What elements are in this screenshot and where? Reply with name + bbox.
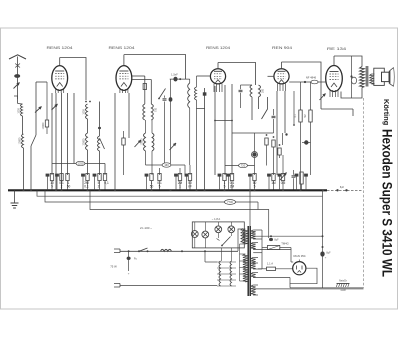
wire V4 to V5 coupling y82: [289, 81, 326, 83]
wire x291 col: [290, 248, 292, 250]
coupling oval on y82: [311, 80, 318, 84]
wire det mid links: [254, 133, 256, 152]
svg-text:8µF: 8µF: [326, 252, 331, 255]
return line y196: [37, 190, 323, 196]
capacitor blobs row stage3: [219, 177, 221, 191]
wire L2 down to bus: [23, 148, 25, 190]
wire L1 to L2: [22, 116, 24, 134]
wire osc column a: [87, 150, 89, 175]
wire V5 anode riser: [333, 56, 335, 66]
inductor L1 antenna coil: [21, 104, 23, 116]
svg-text:4198: 4198: [340, 289, 346, 292]
wire V4 pin col3: [293, 91, 295, 125]
svg-text:10000: 10000: [141, 138, 144, 145]
mains plug upper prong: [114, 249, 120, 253]
svg-text:5: 5: [254, 184, 256, 188]
capacitor 8uF B+ blob: [320, 251, 324, 256]
720 coupling oval: [239, 163, 248, 167]
AVC network resistor Ra: [265, 138, 268, 145]
wire speaker links: [372, 73, 375, 75]
wire x262 col: [261, 230, 263, 269]
wire osc col c: [104, 164, 106, 176]
contact tick antenna: [14, 96, 18, 99]
dial lamp La3: [215, 226, 222, 233]
secondary lead y288 bottom: [253, 288, 363, 290]
wire V3 grid column: [204, 88, 206, 190]
wire V3 anode top riser: [217, 63, 219, 69]
wire osc top riser: [99, 102, 101, 126]
electrolytic blob det: [252, 152, 258, 158]
wire V4 pin col2: [284, 91, 286, 133]
svg-text:2×-100 ~: 2×-100 ~: [140, 226, 152, 230]
wire top link V2 to coupling node: [124, 55, 186, 80]
inductor L7 stage2: [152, 133, 154, 151]
resistor row stage3 R13: [223, 174, 226, 181]
wire V3 left grid link: [197, 75, 211, 77]
wire speaker feed col: [351, 56, 353, 98]
voltage selector winding left: [219, 261, 221, 286]
mains switch: [139, 248, 148, 251]
wire C7 risers: [240, 85, 242, 89]
transformer secondary winding 3: [251, 258, 256, 270]
wire IF2 tops link: [241, 84, 253, 86]
wire y236 node dot: [270, 235, 272, 237]
wire top link V2 riser: [123, 55, 125, 66]
return line y202: [45, 190, 258, 202]
transformer secondary winding 5: [251, 285, 256, 295]
svg-text:5: 5: [224, 184, 226, 188]
AVC network resistor Rc: [278, 148, 281, 155]
resistor R8 stage2: [122, 138, 125, 145]
wire res leads: [258, 268, 267, 270]
resistor row stage3 R16: [272, 174, 275, 181]
wire x322 B+ column: [322, 190, 324, 287]
svg-text:1,1 A: 1,1 A: [267, 262, 273, 266]
grid resistor R18 0,1M: [299, 110, 302, 122]
switch diagonal stage2: [159, 89, 166, 99]
resistor on IF riser: [143, 84, 146, 90]
mains plug lower prong: [114, 284, 120, 288]
waveband switch S1b: [100, 138, 105, 149]
svg-text:RENS 1204: RENS 1204: [206, 46, 230, 50]
trimmer arrow antenna: [14, 83, 20, 89]
svg-text:8µF: 8µF: [340, 186, 345, 189]
mains fuse cap blob: [128, 251, 130, 271]
wire R20 col: [301, 184, 303, 190]
selector rungs: [217, 261, 236, 263]
junction dot coupling: [179, 78, 181, 80]
wire osc column b: [99, 151, 101, 175]
oscillator link bar 1250: [52, 163, 105, 165]
antenna switch mark: [15, 64, 20, 68]
IF T1 secondary riser: [150, 80, 152, 105]
tube V1 pins: [55, 89, 57, 93]
junction dots L3 top: [85, 101, 87, 103]
wire V2 anode link right: [132, 75, 145, 77]
dial lamp box: [192, 222, 244, 248]
capacitor C8 det: [272, 115, 276, 117]
secondary lead y239: [253, 238, 262, 240]
resistor row stage1 R3: [60, 174, 63, 181]
wire L4 L5 risers: [87, 119, 89, 133]
wire lamp box drops to selector: [221, 248, 223, 261]
7746 oval on return: [225, 200, 236, 205]
tube V5 RE134: [326, 66, 343, 92]
wire coupling y79: [170, 78, 190, 80]
wire transformer bottom return: [341, 88, 362, 99]
waveband switch S1a: [31, 135, 36, 146]
resistor row stage2 R12: [188, 174, 191, 181]
transformer primary upper winding: [243, 229, 248, 244]
wire V4 grid link: [268, 75, 274, 77]
secondary lead y266: [253, 262, 258, 264]
secondary lead y243: [253, 242, 258, 244]
chassis bus (heavy): [8, 189, 327, 191]
svg-text:nF: nF: [188, 184, 192, 188]
ground symbol: [14, 190, 16, 203]
svg-text:1000: 1000: [83, 109, 86, 115]
speaker LS magnet: [382, 72, 390, 81]
wire V4 anode riser: [281, 62, 283, 69]
tube V4 pins: [277, 84, 279, 92]
wire V3 g3 column: [231, 84, 233, 175]
svg-text:5: 5: [159, 184, 161, 188]
svg-text:RE 134: RE 134: [327, 47, 346, 51]
volume pot arrow: [280, 173, 287, 181]
dial lamp La4 stubs: [230, 222, 232, 226]
svg-text:1,5nF: 1,5nF: [171, 73, 178, 77]
speaker LS cone flare: [390, 68, 394, 87]
capacitor dot C9: [285, 133, 287, 135]
wire C10 col: [293, 170, 295, 175]
dial lamp La2: [202, 231, 209, 238]
detector switch arrow: [262, 109, 268, 119]
wire top link V1 to mixer coil: [60, 58, 86, 101]
wire R1 stub: [46, 113, 48, 120]
mains transformer core: [247, 226, 249, 296]
tube V5 pins: [329, 90, 331, 97]
wire V1 grid column: [55, 93, 57, 190]
svg-text:160: 160: [164, 163, 169, 167]
bus junction dots: [23, 189, 25, 191]
junction dot speaker col: [350, 75, 352, 77]
wire V3 cathode bar: [215, 120, 232, 122]
IF transformer T1 secondary: [151, 104, 153, 120]
secondary lead y236: [253, 235, 322, 237]
link bar 160 stage2: [146, 164, 186, 166]
tube V1 RENS1204: [52, 66, 68, 91]
tube V3 RENS1204: [210, 69, 225, 84]
lamp box switch: [222, 237, 231, 246]
wire stage2 col down a: [145, 151, 147, 165]
capacitor C5 across T1: [163, 98, 167, 100]
wire V5 cathode arrow: [320, 94, 326, 101]
wire rectifier cathode riser: [298, 260, 300, 262]
wire top V1 anode riser: [59, 58, 61, 66]
svg-text:TM4G: TM4G: [281, 242, 288, 246]
secondary lead y258: [253, 257, 258, 259]
wire top link V3 to IF2: [218, 63, 256, 86]
svg-text:75 W: 75 W: [110, 265, 117, 269]
svg-text:+: +: [128, 272, 130, 276]
wire x290 drop: [289, 284, 291, 288]
speaker LS cone bar: [389, 71, 391, 84]
160 coupling oval: [162, 163, 171, 167]
svg-text:7746: 7746: [227, 200, 233, 204]
svg-text:2M: 2M: [230, 184, 235, 188]
wire C5 column: [164, 96, 166, 98]
svg-text:REN 904: REN 904: [272, 46, 292, 50]
svg-text:2: 2: [61, 184, 63, 188]
wire R18 col: [300, 82, 302, 110]
svg-text:NF 4846: NF 4846: [306, 76, 317, 80]
wire x47 drop: [46, 82, 48, 113]
IF transformer T1 primary: [143, 104, 145, 120]
secondary lead y272: [253, 272, 258, 274]
wire det link bar: [251, 97, 253, 120]
svg-text:Hexoden Super S 3410 WL: Hexoden Super S 3410 WL: [379, 129, 394, 277]
svg-text:RENS 1204: RENS 1204: [109, 46, 135, 50]
capacitor blobs row stage1: [47, 177, 49, 191]
resistor row stage1 R2: [50, 174, 53, 181]
wire link antenna box top: [36, 81, 47, 83]
capacitor blob x170: [169, 97, 173, 101]
wire row stubs stage1: [51, 181, 53, 190]
bus end components: [336, 189, 338, 191]
wire switch column: [35, 82, 37, 135]
grid resistor R19 5M: [309, 110, 312, 122]
svg-text:10000: 10000: [19, 137, 22, 144]
resistor row stage1 R6: [98, 174, 101, 181]
wire T2 sec down: [258, 97, 260, 109]
output transformer core: [365, 66, 367, 87]
wire mains junction dots: [181, 250, 183, 252]
wire V2 grid return column: [114, 93, 116, 190]
L6 risers: [145, 120, 147, 133]
tube V4 REN904: [274, 69, 289, 84]
svg-text:50: 50: [67, 184, 71, 188]
return line y209: [90, 190, 269, 238]
transformer primary taps: [238, 229, 245, 251]
svg-text:10000: 10000: [42, 122, 45, 129]
trimmer arrow stage2a: [135, 140, 142, 147]
inductor L3 osc coil: [86, 104, 88, 119]
lamp series resistor zigzag: [241, 228, 244, 243]
wire rectifier output loop: [290, 268, 317, 284]
wire stage2 col down b: [151, 151, 153, 175]
wire rectifier anode feed: [291, 261, 293, 263]
capacitor antenna series: [14, 74, 20, 78]
transformer secondary winding 1: [251, 230, 256, 239]
resistor row stage3 R17: [281, 174, 284, 181]
wire stage2 col down c: [184, 165, 186, 175]
wire R8 down: [123, 145, 125, 175]
svg-text:NetzDr: NetzDr: [339, 280, 347, 283]
secondary lead y249: [253, 250, 291, 262]
AVC dots: [266, 134, 268, 136]
output transformer primary winding: [360, 67, 365, 88]
dial lamp La4: [228, 226, 235, 233]
secondary lead y252: [253, 252, 262, 254]
svg-text:0,5: 0,5: [281, 181, 286, 185]
inductor L5 padder coil: [98, 136, 100, 151]
resistor row stage3 R14: [230, 174, 233, 181]
wire V3 cathode column: [214, 86, 216, 175]
secondary lead y277: [253, 277, 290, 279]
resistor row stage3 R15: [253, 174, 256, 181]
rectifier electrodes: [296, 266, 298, 270]
svg-text:0,1: 0,1: [104, 181, 109, 185]
junction dot x322 y236: [322, 235, 324, 237]
AVC network resistor Rb: [272, 140, 275, 147]
wire V2 g2 link right: [132, 79, 152, 81]
wire top link V4 right: [282, 62, 322, 109]
svg-text:720: 720: [241, 164, 246, 168]
fuse choke coil: [161, 249, 172, 251]
resistor row stage2 R11: [178, 174, 181, 181]
wire coupling coil down: [189, 108, 191, 165]
wire stage2 long col: [196, 108, 198, 190]
svg-text:1M: 1M: [271, 181, 276, 185]
transformer secondary winding 4: [251, 273, 256, 278]
tube V3 pins: [213, 84, 215, 93]
inductor osc coupling coil: [189, 79, 191, 83]
resistor row stage2 R10: [158, 174, 161, 181]
tube V2 pins: [119, 89, 121, 93]
wire V1 g3 column: [73, 93, 75, 164]
inductor L4 osc coil: [86, 133, 88, 150]
capacitor C10: [292, 175, 296, 177]
inductor L6 stage2: [144, 133, 146, 151]
coupling dot: [304, 81, 306, 83]
capacitor blob V3 grid: [203, 92, 207, 95]
wire C8 column: [273, 109, 275, 115]
inductor L2 antenna coil: [22, 134, 24, 148]
trimmer arrow stage2b: [170, 143, 177, 150]
selector stub bottom: [216, 285, 218, 287]
wire antenna lead-in: [17, 57, 19, 104]
output transformer secondary winding: [370, 74, 374, 84]
svg-text:1000: 1000: [18, 108, 21, 114]
wire det bar 133: [232, 132, 274, 134]
bus dashed extension: [327, 189, 362, 191]
transformer tap drop: [239, 244, 241, 281]
capacitor C7 IF2: [239, 89, 243, 91]
field coil block TM4G: [267, 246, 279, 250]
return jog x258: [257, 202, 259, 210]
resistor row stage1 R5: [86, 174, 89, 181]
secondary lead y295: [253, 294, 258, 296]
svg-text:~ 1,8 A: ~ 1,8 A: [212, 217, 221, 221]
wire V1 anode column: [61, 93, 63, 190]
wire y109 link right: [321, 108, 353, 110]
svg-text:1: 1: [179, 184, 181, 188]
IF transformer T2 secondary: [259, 85, 261, 97]
wire AVC col: [266, 145, 268, 166]
trimmer arrow stage1: [52, 104, 58, 110]
capacitor blobs row stage4: [296, 177, 298, 191]
antenna A: [9, 55, 26, 59]
secondary lead y269: [253, 268, 262, 270]
selector stub left: [204, 251, 206, 262]
trimmer arrow C-ant: [35, 107, 42, 113]
resistor row stage2 R9: [150, 174, 153, 181]
tube V2 RENS1204: [116, 66, 132, 91]
grid leak resistor R1: [45, 120, 48, 127]
secondary lead y285: [253, 284, 258, 286]
secondary lead y230: [253, 229, 262, 231]
svg-text:1250: 1250: [78, 162, 84, 166]
wire V2 cathode column: [128, 93, 130, 138]
wire V1 screen column: [67, 93, 69, 175]
padding capacitor C2: [98, 126, 101, 128]
wire det col 282: [282, 133, 284, 145]
resistor 1,1A: [267, 267, 276, 270]
svg-text:700: 700: [155, 107, 158, 112]
svg-text:RENS 1204: RENS 1204: [47, 46, 73, 50]
wire V4 cathode col: [276, 91, 278, 175]
resistor R20: [300, 172, 303, 184]
tone capacitor oval 3n: [351, 77, 356, 84]
coupling capacitor 1,5nF blob: [173, 77, 177, 82]
svg-text:2: 2: [98, 184, 100, 188]
wire mains lower: [120, 285, 217, 287]
wire det col: [267, 97, 269, 109]
wire trimmer column: [30, 146, 32, 190]
dial lamp La3 stubs: [217, 222, 219, 226]
speaker LS frame: [374, 68, 385, 85]
svg-text:Körting: Körting: [382, 99, 391, 126]
wire bottom return y287.8: [290, 287, 364, 289]
bus drop to transformer: [249, 190, 251, 226]
capacitor 8uF block dot a: [269, 238, 273, 241]
voltage selector winding right: [230, 261, 232, 286]
dial lamp La1: [191, 231, 198, 238]
cathode bias blob V4: [304, 140, 308, 144]
dial lamp La1 stubs: [194, 222, 196, 231]
transformer secondary winding 2: [251, 243, 256, 250]
svg-text:RGN 354: RGN 354: [293, 254, 305, 258]
svg-text:0,1: 0,1: [84, 184, 89, 188]
link bar 720 stage3: [225, 165, 255, 167]
svg-text:50: 50: [150, 184, 154, 188]
transformer primary lower winding: [243, 254, 248, 282]
wire TM4G leads: [262, 247, 267, 249]
svg-text:5M: 5M: [304, 114, 307, 117]
wire mains upper: [120, 250, 238, 252]
resistor row stage1 R7: [103, 174, 106, 181]
capacitor blobs row stage2: [146, 177, 148, 191]
svg-text:300: 300: [262, 88, 265, 93]
1250 coupling oval: [76, 161, 85, 165]
svg-text:8µF: 8µF: [274, 239, 279, 242]
IF T1 primary riser: [144, 76, 146, 104]
wire V1 cathode column: [51, 93, 53, 175]
wire B+ drop right: [363, 98, 365, 288]
wire antenna top junction: [18, 103, 23, 106]
dial lamp La2 stubs: [204, 222, 206, 231]
wire V5 anode top link: [334, 56, 362, 67]
wire R19 col: [310, 82, 312, 110]
mains choke hatched bar: [337, 283, 350, 285]
wire V3 g2 column: [224, 85, 226, 175]
resistor row stage1 R4: [66, 174, 69, 181]
rectifier tube RGN354: [293, 262, 306, 275]
wire x353 down: [352, 109, 354, 116]
IF transformer T2 primary: [250, 85, 252, 97]
svg-text:20000: 20000: [83, 138, 86, 145]
wire x170 drop with blob: [170, 79, 172, 163]
